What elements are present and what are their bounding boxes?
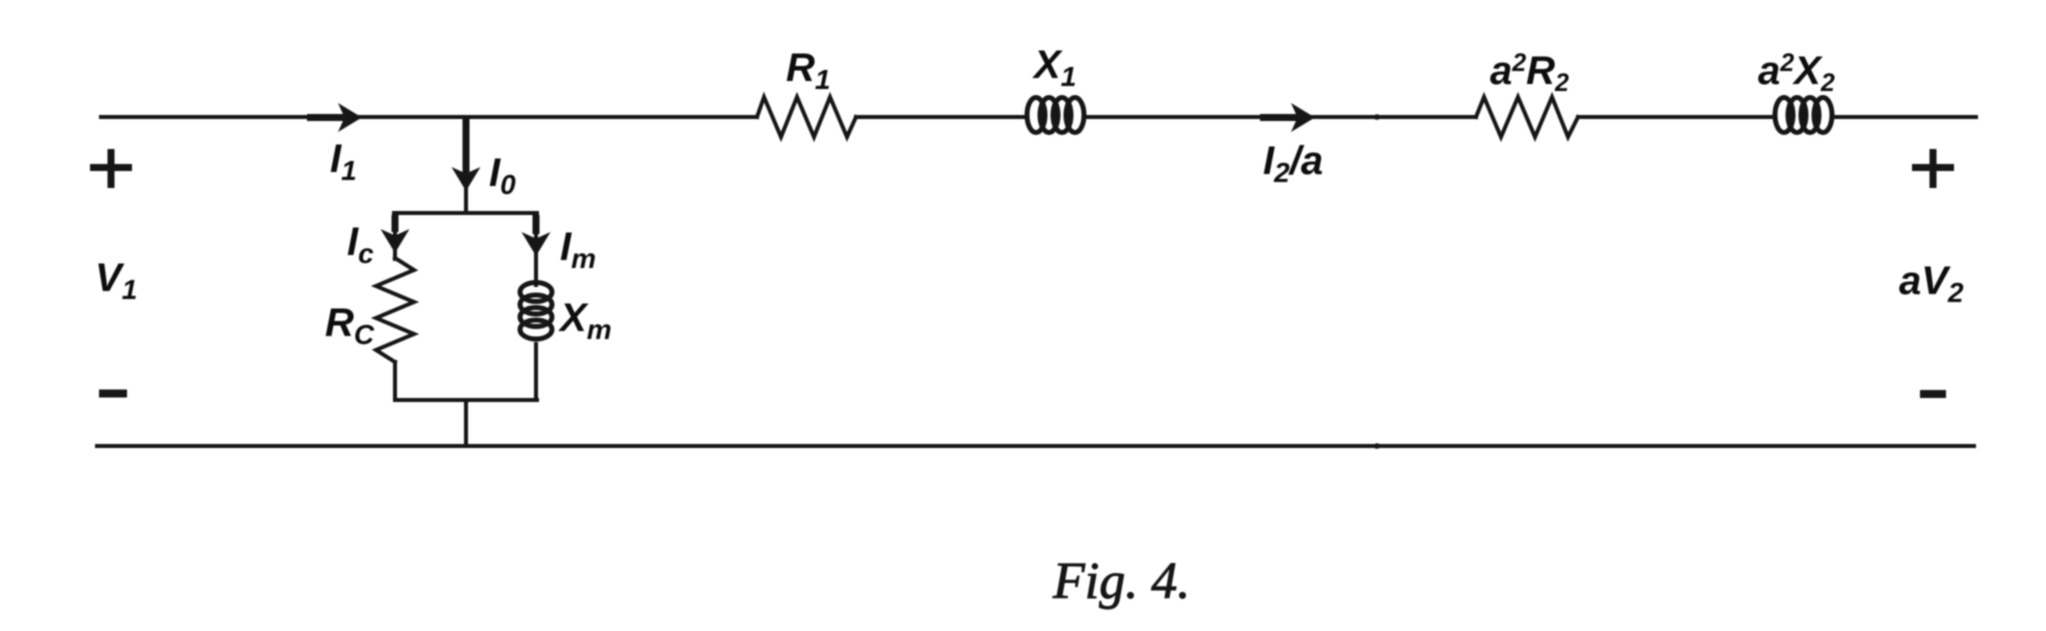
- wire bottom rail: [97, 444, 1974, 448]
- svg-text:Fig. 4.: Fig. 4.: [1052, 553, 1190, 610]
- wire right branch upper: [534, 213, 538, 285]
- wire left branch lower: [393, 362, 397, 400]
- minus left: [99, 390, 127, 398]
- wire right branch lower: [534, 344, 538, 400]
- arrow I1: [307, 103, 362, 132]
- svg-text:RC: RC: [325, 301, 375, 350]
- wire bottom stem: [464, 400, 468, 446]
- resistor RC: [376, 258, 414, 362]
- svg-text:I0: I0: [489, 151, 516, 200]
- inductor Xm: [520, 283, 552, 340]
- arrow Im: [522, 215, 551, 256]
- svg-text:I1: I1: [330, 137, 357, 186]
- plus left: [90, 149, 132, 188]
- wire between a2R2 and a2X2: [1578, 115, 1773, 119]
- wire between R1 and X1: [856, 115, 1025, 119]
- svg-text:a2R2: a2R2: [1490, 49, 1569, 97]
- inductor X1: [1027, 98, 1084, 133]
- svg-text:X1: X1: [1032, 43, 1076, 92]
- svg-text:Ic: Ic: [347, 220, 374, 269]
- node tick bottom rail: [1374, 443, 1381, 449]
- wire shunt bottom bar: [395, 398, 537, 402]
- arrow I2/a: [1260, 103, 1315, 132]
- wire between X1 and a2R2: [1085, 115, 1476, 119]
- plus right: [1912, 149, 1954, 188]
- inductor a2X2: [1775, 98, 1832, 133]
- svg-text:a2X2: a2X2: [1758, 49, 1835, 97]
- svg-text:Xm: Xm: [558, 296, 612, 345]
- node tick top rail: [1374, 114, 1381, 120]
- wire top rail right segment: [1835, 115, 1976, 119]
- arrow I0: [452, 119, 481, 191]
- svg-text:R1: R1: [786, 46, 830, 95]
- wire top rail left segment: [101, 115, 757, 119]
- wire shunt stem: [464, 117, 468, 213]
- svg-text:I2/a: I2/a: [1263, 139, 1323, 188]
- resistor a2R2: [1476, 97, 1578, 137]
- minus right: [1920, 390, 1946, 398]
- arrow Ic: [381, 215, 410, 253]
- svg-text:Im: Im: [560, 225, 596, 274]
- resistor R1: [757, 97, 856, 137]
- svg-text:aV2: aV2: [1899, 259, 1964, 308]
- svg-text:V1: V1: [95, 256, 137, 305]
- wire shunt top bar: [394, 211, 537, 215]
- wire left branch upper: [393, 213, 397, 259]
